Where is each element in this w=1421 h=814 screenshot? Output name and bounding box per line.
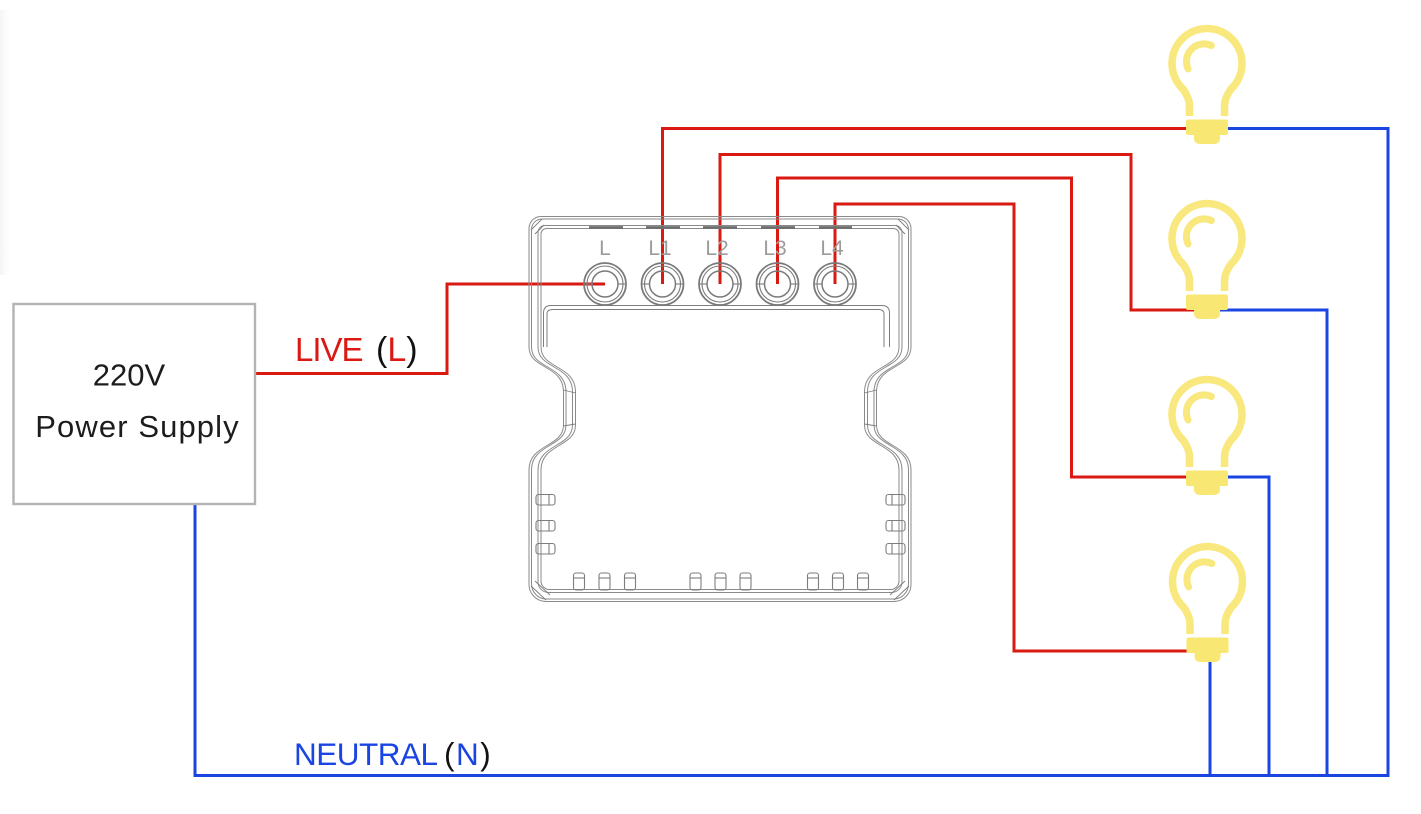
wire neutral N (blue bus from power supply along bottom) (195, 504, 1390, 776)
wire lamp4 neutral return (1209, 653, 1212, 776)
terminal L3 (757, 263, 799, 305)
wire L1 to lamp 1 (663, 129, 1208, 285)
lamp DS3 (1172, 380, 1242, 495)
svg-text:L4: L4 (820, 237, 844, 260)
module corner bevels (531, 219, 909, 600)
svg-text:L2: L2 (705, 237, 728, 260)
wire lamp1 neutral return (1207, 129, 1388, 776)
wire live L (power supply to terminal L) (255, 284, 605, 374)
terminal L4 (814, 263, 856, 305)
svg-text:NEUTRAL: NEUTRAL (294, 736, 438, 772)
lamp DS1 (1172, 29, 1242, 144)
lamp DS2 (1172, 204, 1242, 319)
switch module terminal shelf line (544, 306, 890, 348)
terminal L2 (699, 263, 741, 305)
svg-text:(L): (L) (376, 331, 418, 369)
wire L2 to lamp 2 (720, 155, 1207, 311)
power supply PS1 box (14, 304, 256, 504)
svg-text:Power Supply: Power Supply (35, 409, 239, 444)
switch module U1 outer shell (529, 217, 911, 602)
module right clips (886, 495, 905, 555)
svg-text:(N): (N) (444, 736, 492, 772)
svg-text:L3: L3 (763, 237, 786, 260)
terminal L1 (642, 263, 684, 305)
module bottom pins group 1 (574, 573, 636, 590)
lamp DS4 (1173, 547, 1243, 662)
terminal L (584, 263, 626, 305)
svg-text:L: L (599, 237, 611, 260)
svg-text:L1: L1 (648, 237, 671, 260)
wire L4 to lamp 4 (835, 204, 1207, 651)
switch module top vent slots (589, 226, 852, 229)
svg-text:LIVE: LIVE (295, 331, 363, 368)
module bottom pins group 3 (808, 573, 869, 590)
wire lamp3 neutral return (1207, 477, 1269, 776)
wire L3 to lamp 3 (778, 178, 1208, 477)
wire lamp2 neutral return (1207, 310, 1327, 776)
svg-text:220V: 220V (93, 358, 166, 393)
module left clips (536, 495, 555, 555)
module bottom pins group 2 (690, 573, 751, 590)
